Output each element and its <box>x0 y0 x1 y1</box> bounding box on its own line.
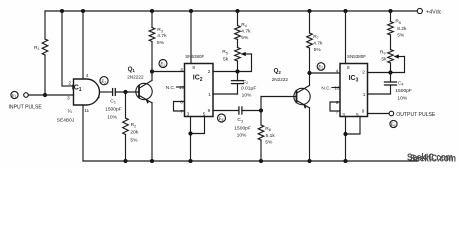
svg-text:5%: 5% <box>157 40 165 46</box>
svg-text:10%: 10% <box>107 115 117 121</box>
pin 3 <box>187 112 190 117</box>
wire to IC3 pin4 <box>310 72 341 74</box>
potentiometer R5 <box>222 48 251 72</box>
wire input to IC1 pin3 <box>28 94 73 96</box>
svg-text:E1: E1 <box>11 93 17 99</box>
svg-text:¼: ¼ <box>68 109 73 115</box>
watermark <box>407 153 456 165</box>
svg-text:Q2: Q2 <box>274 67 282 74</box>
pin 5 <box>356 112 359 117</box>
op-amp IC3 <box>340 54 368 117</box>
svg-text:5k: 5k <box>223 56 229 62</box>
svg-text:0.01µF: 0.01µF <box>241 86 256 92</box>
wire Q1 emitter to ground <box>151 103 153 161</box>
wire IC3 pins 6-7 loop <box>330 102 340 111</box>
svg-text:2: 2 <box>362 70 365 75</box>
svg-text:SE4B0J: SE4B0J <box>57 117 75 123</box>
svg-text:4: 4 <box>336 68 339 73</box>
wire IC3 pin1 <box>368 93 391 95</box>
resistor R2 <box>123 92 139 161</box>
node 1/4 SE4B0J label <box>57 109 75 123</box>
svg-text:5%: 5% <box>314 47 322 53</box>
svg-text:IC2: IC2 <box>193 75 203 84</box>
wire IC2 pin8 <box>190 11 192 64</box>
wire IC3 pin5 <box>346 117 361 135</box>
pin 4 <box>336 68 339 73</box>
capacitor C3 <box>234 107 261 139</box>
svg-text:8.2k: 8.2k <box>397 26 407 32</box>
wire IC2 pin2 <box>213 71 238 73</box>
svg-text:INPUT PULSE: INPUT PULSE <box>9 105 43 111</box>
wire to IC2 pin4 <box>152 71 185 73</box>
svg-text:4: 4 <box>86 73 89 78</box>
pin 11 <box>84 108 89 113</box>
resistor R7 <box>307 11 323 73</box>
svg-text:R9: R9 <box>380 49 386 55</box>
wire IC3 pin8 <box>345 11 347 64</box>
svg-text:2: 2 <box>69 81 72 86</box>
wire top supply rail <box>45 10 417 12</box>
node E5 <box>317 63 325 71</box>
svg-text:E3: E3 <box>159 63 165 68</box>
svg-text:8: 8 <box>192 65 195 70</box>
wire IC3 pin2 <box>368 72 391 74</box>
svg-text:5k: 5k <box>381 56 387 62</box>
capacitor C4 <box>385 73 412 102</box>
resistor R4 <box>235 11 251 48</box>
node Q2 collector junction <box>307 71 311 75</box>
svg-text:3: 3 <box>187 112 190 117</box>
svg-text:9: 9 <box>208 108 211 113</box>
svg-text:10%: 10% <box>397 95 407 101</box>
node Q1 collector junction <box>150 69 154 73</box>
wire IC2 pin5 <box>191 117 205 134</box>
svg-text:R2: R2 <box>131 122 137 128</box>
svg-text:N.C.: N.C. <box>321 85 330 90</box>
capacitor C1 <box>105 89 122 121</box>
svg-text:2: 2 <box>208 69 211 74</box>
svg-text:1500pF: 1500pF <box>234 125 251 131</box>
svg-text:5%: 5% <box>241 35 249 41</box>
wire Q2 emitter to ground <box>309 108 311 161</box>
node bottom rail junction dots <box>123 159 347 163</box>
svg-text:3: 3 <box>67 96 70 101</box>
pin 3 <box>67 96 70 101</box>
svg-text:R3: R3 <box>157 27 163 33</box>
svg-text:5.1k: 5.1k <box>266 133 276 139</box>
svg-text:4.7k: 4.7k <box>157 33 167 39</box>
wire IC3 pin3 to ground <box>345 117 347 162</box>
node E1 <box>11 91 18 99</box>
svg-text:7: 7 <box>336 109 339 114</box>
pin 9 <box>362 109 365 114</box>
wire Q1 collector <box>151 72 153 81</box>
svg-text:1: 1 <box>363 92 366 97</box>
pin 2 <box>362 70 365 75</box>
node N.C. label IC3 <box>321 85 340 90</box>
pin 5 <box>203 112 206 117</box>
svg-text:3: 3 <box>342 112 345 117</box>
svg-text:5%: 5% <box>265 139 273 145</box>
svg-text:R4: R4 <box>241 22 247 28</box>
svg-text:C1: C1 <box>110 98 116 104</box>
pin 8 <box>347 65 350 70</box>
node E4 <box>218 114 226 122</box>
wire pin4 feed <box>82 11 84 79</box>
svg-text:C3: C3 <box>237 117 243 123</box>
pin 10 <box>334 86 340 91</box>
pin 3 <box>342 112 345 117</box>
svg-text:SeekIC.com: SeekIC.com <box>410 154 456 165</box>
svg-text:4.7k: 4.7k <box>313 41 323 47</box>
svg-text:C2: C2 <box>243 79 249 85</box>
svg-text:E5: E5 <box>317 66 323 71</box>
wire bottom ground rail <box>83 160 418 162</box>
svg-text:1500pF: 1500pF <box>105 107 122 113</box>
wire IC2 pins 6-7 loop <box>174 102 185 112</box>
svg-text:1500pF: 1500pF <box>395 88 412 94</box>
resistor R1 <box>34 11 48 95</box>
svg-text:5%: 5% <box>130 138 138 144</box>
transistor Q2 <box>272 67 311 108</box>
node C3 junction <box>259 108 263 112</box>
wire IC3 pin9 to output <box>368 113 390 115</box>
resistor R8 <box>258 111 275 162</box>
pin 8 <box>192 65 195 70</box>
transistor Q1 <box>127 66 152 104</box>
pin 1 <box>363 92 366 97</box>
svg-text:20k: 20k <box>130 130 138 136</box>
svg-text:4: 4 <box>180 67 183 72</box>
svg-text:6: 6 <box>336 100 339 105</box>
wire IC2 pin1 <box>213 93 238 95</box>
svg-text:Q1: Q1 <box>128 66 136 73</box>
node IC2 3-5 junction <box>188 131 192 135</box>
pin 1 <box>208 92 211 97</box>
node input junction <box>43 93 47 97</box>
terminal +4Vdc <box>417 8 442 15</box>
svg-text:R5: R5 <box>222 49 228 55</box>
svg-text:10: 10 <box>334 86 340 91</box>
svg-text:1: 1 <box>208 92 211 97</box>
node E3 <box>159 60 167 68</box>
svg-text:E4: E4 <box>218 117 224 122</box>
svg-text:5: 5 <box>356 112 359 117</box>
node N.C. label IC2 <box>166 85 185 90</box>
pin 6 <box>180 100 183 105</box>
terminal input <box>24 93 29 98</box>
svg-text:4.7k: 4.7k <box>241 29 251 35</box>
svg-text:10%: 10% <box>242 92 252 98</box>
wire IC2 pin9 <box>213 110 239 112</box>
svg-text:OUTPUT PULSE: OUTPUT PULSE <box>396 112 436 118</box>
svg-text:R1: R1 <box>34 45 40 51</box>
op-amp IC2 <box>185 54 214 117</box>
wire Q2 base <box>261 97 297 111</box>
svg-text:8: 8 <box>347 65 350 70</box>
svg-text:2N2222: 2N2222 <box>272 77 289 82</box>
node E6 <box>390 120 397 128</box>
pin 4 <box>86 73 89 78</box>
svg-text:N.C.: N.C. <box>166 85 175 90</box>
node INPUT PULSE label <box>9 105 43 111</box>
potentiometer R9 <box>380 49 405 72</box>
svg-text:R7: R7 <box>313 34 319 40</box>
wire IC2 pin3 to ground <box>190 117 192 162</box>
resistor R3 <box>149 11 167 72</box>
node R9 wiper junction <box>388 70 392 74</box>
svg-text:9: 9 <box>362 109 365 114</box>
pin 2 <box>208 69 211 74</box>
svg-text:SN5380F: SN5380F <box>347 54 366 59</box>
op-amp IC1 gate <box>72 79 100 105</box>
node C1/R2 junction <box>123 90 127 94</box>
svg-text:IC3: IC3 <box>349 75 359 84</box>
node E2 <box>100 77 108 85</box>
pin 2 <box>69 81 72 86</box>
svg-text:R6: R6 <box>395 19 401 25</box>
node IC3 3-5 junction <box>343 132 347 136</box>
svg-text:E2: E2 <box>100 80 106 85</box>
node R5 wiper junction <box>235 69 239 73</box>
wire IC1 output <box>100 91 113 93</box>
svg-text:+4Vdc: +4Vdc <box>426 10 442 16</box>
svg-text:2N2222: 2N2222 <box>127 75 144 80</box>
wire Q2 collector <box>309 73 311 85</box>
resistor R6 <box>388 11 407 50</box>
svg-text:C4: C4 <box>398 80 404 86</box>
pin 7 <box>180 109 183 114</box>
svg-text:E6: E6 <box>390 123 396 128</box>
pin 1 <box>98 94 101 99</box>
svg-text:1: 1 <box>98 94 101 99</box>
svg-text:5%: 5% <box>397 32 405 38</box>
pin 6 <box>336 100 339 105</box>
pin 9 <box>208 108 211 113</box>
svg-text:SN5380F: SN5380F <box>185 54 204 59</box>
svg-text:10%: 10% <box>237 133 247 139</box>
svg-text:5: 5 <box>203 112 206 117</box>
svg-text:11: 11 <box>84 108 89 113</box>
wire C1 to Q1 base <box>115 91 138 93</box>
capacitor C2 <box>232 72 257 99</box>
pin 7 <box>336 109 339 114</box>
wire pin2 feed <box>62 11 74 86</box>
svg-text:6: 6 <box>180 100 183 105</box>
node top rail junction dots <box>60 9 393 13</box>
pin 10 <box>179 85 185 90</box>
svg-text:R8: R8 <box>265 126 271 132</box>
terminal output <box>389 111 436 118</box>
wire IC1 pin11 to ground <box>82 105 84 161</box>
pin 4 <box>180 67 183 72</box>
